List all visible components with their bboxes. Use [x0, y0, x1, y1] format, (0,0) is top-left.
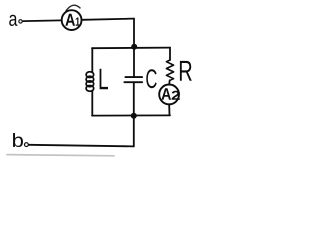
ammeter A1 subscript 1	[76, 18, 80, 26]
inductor branch wire lower	[91, 91, 93, 116]
inductor branch wire upper	[91, 48, 93, 72]
label C	[146, 69, 156, 88]
terminal b	[25, 143, 29, 147]
artifact smudge line bottom	[7, 155, 114, 156]
label R	[180, 61, 192, 81]
wire zigzag to A2	[168, 80, 170, 83]
junction dot bottom	[131, 113, 137, 119]
wire junction down	[133, 116, 135, 147]
ammeter A2 letter A	[162, 88, 172, 100]
ammeter A1 letter A	[65, 14, 75, 26]
wire A1 to corner	[83, 19, 135, 20]
junction dot top	[131, 44, 137, 50]
capacitor branch wire upper	[133, 47, 135, 77]
capacitor C top plate	[125, 76, 142, 78]
bottom rail wire	[92, 114, 170, 116]
ammeter A2 circle	[159, 85, 179, 105]
inductor L coil	[86, 72, 94, 92]
capacitor C bottom plate	[124, 81, 142, 83]
top rail wire	[92, 47, 170, 50]
artifact arc at top (cropped mark)	[66, 5, 80, 10]
terminal a	[19, 20, 22, 23]
wire corner down to junction	[133, 19, 135, 48]
node a label	[9, 15, 17, 26]
wire b horizontal	[29, 145, 134, 147]
node b label	[13, 133, 23, 147]
capacitor branch wire lower	[133, 83, 135, 116]
ammeter A2 subscript 2	[172, 91, 180, 100]
resistor R zigzag	[166, 60, 173, 80]
resistor branch wire upper	[169, 48, 171, 60]
label L	[100, 69, 108, 90]
wire a to A1	[23, 19, 61, 22]
ammeter A1 circle	[62, 10, 82, 30]
wire A2 to bottom rail	[168, 105, 170, 115]
